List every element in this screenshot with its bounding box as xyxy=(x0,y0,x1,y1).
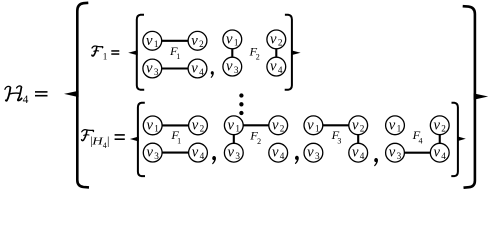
svg-text:1: 1 xyxy=(154,39,159,49)
svg-text:v: v xyxy=(228,145,235,161)
svg-text:4: 4 xyxy=(23,94,29,106)
svg-text:2: 2 xyxy=(199,39,204,49)
svg-text:2: 2 xyxy=(256,52,260,61)
svg-text:v: v xyxy=(192,145,199,161)
svg-text:3: 3 xyxy=(154,151,159,161)
svg-text:2: 2 xyxy=(257,137,261,146)
svg-text:v: v xyxy=(433,117,440,133)
svg-text:v: v xyxy=(191,33,198,49)
svg-text:4: 4 xyxy=(199,67,204,77)
svg-text:3: 3 xyxy=(235,151,240,161)
svg-text:v: v xyxy=(228,117,235,133)
svg-text:v: v xyxy=(272,145,279,161)
svg-text:v: v xyxy=(389,117,396,133)
svg-text:3: 3 xyxy=(315,151,320,161)
svg-text:4: 4 xyxy=(200,151,205,161)
svg-text:1: 1 xyxy=(315,124,320,134)
svg-text:4: 4 xyxy=(360,151,365,161)
svg-text:2: 2 xyxy=(441,124,446,134)
svg-text:v: v xyxy=(270,31,277,47)
svg-text:v: v xyxy=(146,33,153,49)
svg-text:v: v xyxy=(307,117,314,133)
svg-text:3: 3 xyxy=(234,65,239,75)
svg-text:v: v xyxy=(433,145,440,161)
svg-text:v: v xyxy=(389,145,396,161)
svg-text:1: 1 xyxy=(103,51,108,61)
svg-text:1: 1 xyxy=(176,52,180,61)
svg-text:v: v xyxy=(352,117,359,133)
svg-text:4: 4 xyxy=(280,151,285,161)
svg-text:4: 4 xyxy=(441,151,446,161)
svg-text:1: 1 xyxy=(154,124,159,134)
svg-text:3: 3 xyxy=(337,137,341,146)
svg-text:2: 2 xyxy=(278,38,283,48)
svg-text:v: v xyxy=(307,145,314,161)
svg-text:v: v xyxy=(226,31,233,47)
svg-text:v: v xyxy=(272,117,279,133)
svg-text:v: v xyxy=(146,145,153,161)
svg-text:v: v xyxy=(146,117,153,133)
svg-text:v: v xyxy=(352,145,359,161)
svg-text:v: v xyxy=(270,59,277,75)
svg-text:1: 1 xyxy=(397,124,402,134)
svg-text:1: 1 xyxy=(234,38,239,48)
svg-text:4: 4 xyxy=(278,65,283,75)
svg-text:2: 2 xyxy=(200,124,205,134)
svg-text:2: 2 xyxy=(280,124,285,134)
svg-text:v: v xyxy=(146,61,153,77)
svg-text:v: v xyxy=(192,117,199,133)
svg-text:|: | xyxy=(107,134,109,148)
svg-text:1: 1 xyxy=(177,136,181,145)
svg-text:v: v xyxy=(191,61,198,77)
svg-text:2: 2 xyxy=(360,124,365,134)
svg-text:v: v xyxy=(226,59,233,75)
svg-text:1: 1 xyxy=(235,124,240,134)
svg-text:4: 4 xyxy=(419,136,423,145)
svg-text:3: 3 xyxy=(397,151,402,161)
svg-text:3: 3 xyxy=(154,67,159,77)
